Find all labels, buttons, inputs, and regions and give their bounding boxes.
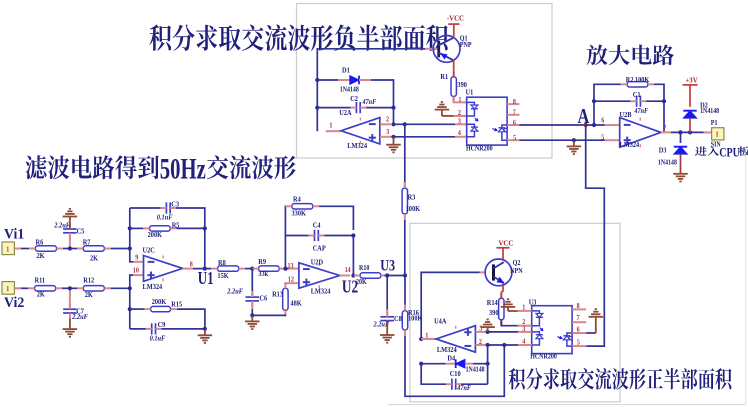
wire C4 right (324, 236, 353, 276)
wire pin2 row to U1 pin3 (392, 123, 456, 125)
junction row1-C5 (68, 246, 72, 250)
wire R5 row left (130, 227, 144, 229)
svg-text:1: 1 (329, 122, 332, 129)
pin number U1 pin 2 (458, 110, 461, 117)
junction D2 tap (688, 130, 692, 134)
svg-text:10: 10 (133, 267, 140, 274)
capacitor C7 2.2uF (63, 303, 88, 321)
wire C2 row left (317, 107, 350, 109)
wire +3V to D2 (689, 85, 691, 107)
svg-text:U3: U3 (380, 258, 395, 275)
pin stub U2B output pin 7 (661, 131, 671, 133)
junction C4-R4 right (351, 233, 355, 237)
junction ground tap pin3 row (391, 135, 395, 139)
wire fb right vertical (487, 345, 489, 384)
svg-text:U2D: U2D (311, 259, 323, 266)
pin number U2B pin 7 (663, 125, 667, 132)
wire C1 row right (646, 100, 664, 102)
wire R13 bottom to ground node (252, 314, 285, 317)
net label Vi2 (4, 295, 24, 311)
pin number U2D pin 13 (288, 263, 295, 270)
power VCC (497, 239, 514, 247)
junction C9-ground (203, 327, 207, 331)
op-amp U2D (LM324) (299, 259, 340, 296)
net label U3 (380, 258, 395, 275)
wire C5 to row1 junction (69, 235, 71, 248)
wire node to U2C pin9 (130, 208, 136, 262)
svg-text:47nF: 47nF (633, 108, 648, 115)
resistor R2 100K (621, 77, 654, 87)
title: filter circuit gives 50Hz AC waveform (25, 152, 295, 186)
junction C6 tap (250, 267, 254, 271)
svg-text:LM324: LM324 (347, 143, 367, 150)
wire R6 to R7 with C5 tap (63, 248, 77, 250)
svg-text:100K: 100K (406, 206, 421, 213)
wire D4 row left (421, 363, 445, 365)
wire C6 bottom to ground node (251, 309, 253, 315)
title: amplifier circuit (587, 45, 674, 66)
pin stub U1 pin 5 (507, 139, 519, 141)
wire pin3 row to U3 pin3 (488, 331, 518, 333)
pin stub U3 pin 4 (518, 344, 532, 346)
pin stub D4 left (446, 363, 456, 365)
pin stub U1 pin 7 (507, 114, 519, 116)
junction D4-C10 right (486, 343, 490, 347)
pin stub U2D pin13 (289, 268, 299, 270)
capacitor C4 CAP (309, 222, 326, 253)
connector port Vi2 (pin 1) (2, 282, 14, 295)
svg-text:C8: C8 (394, 316, 402, 323)
junction row2-C7 (68, 286, 72, 290)
wire R1 to U1 pin 1 (454, 97, 467, 103)
resistor R9 33k (252, 259, 285, 278)
junction fb left on pin6 row (592, 123, 596, 127)
svg-text:R12: R12 (83, 277, 94, 284)
svg-text:R15: R15 (171, 301, 182, 308)
svg-text:12: 12 (288, 276, 294, 283)
wire D1 left (317, 79, 338, 81)
pin number U2D pin 12 (288, 276, 294, 283)
op-amp U2A (LM324) (339, 110, 380, 150)
junction D3 tap (678, 130, 682, 134)
pin number U2A pin 2 (386, 116, 389, 123)
pin stub Q1 base (425, 48, 437, 50)
junction C2 row left (315, 106, 319, 110)
resistor R7 2K (77, 239, 111, 263)
pin R3 top (404, 182, 406, 188)
svg-text:47nF: 47nF (456, 385, 471, 392)
ground below R15/C9 (198, 329, 213, 343)
pin stub U2D output pin 14 (340, 275, 350, 277)
pin stub U3 pin 8 (572, 308, 586, 310)
svg-text:U2B: U2B (620, 112, 632, 119)
transistor Q2 NPN (485, 259, 523, 286)
resistor R12 2K (77, 277, 111, 299)
op-amp U4A (LM324) (434, 318, 475, 354)
junction C6-R13 ground node (250, 313, 254, 317)
wire Vi1 to R6 (14, 248, 29, 250)
junction D4 right (486, 362, 490, 366)
wire C3 row (130, 207, 161, 209)
svg-text:50Hz: 50Hz (160, 152, 206, 186)
wire R2 right (654, 84, 664, 132)
wire R13 top to U2D pin12 (284, 282, 286, 285)
diode D2 1N4148 (683, 102, 719, 118)
pin number U4A pin 2 (479, 339, 482, 346)
junction U3 node (403, 273, 407, 277)
pin number U2A pin 3 (386, 129, 390, 136)
svg-text:2.2uF: 2.2uF (71, 314, 88, 321)
svg-text:NPN: NPN (510, 268, 523, 275)
wire node to U2C pin10 (130, 275, 136, 329)
resistor R1 390 (440, 71, 467, 103)
capacitor C2 47nF (350, 96, 377, 113)
svg-text:U1: U1 (466, 89, 474, 96)
wire node A down to U3 pin5 (586, 125, 605, 346)
svg-text:390: 390 (457, 82, 467, 89)
svg-text:R6: R6 (36, 239, 44, 246)
wire C6 top (251, 269, 253, 292)
resistor R13 48K (272, 282, 302, 316)
svg-text:C5: C5 (77, 228, 85, 235)
svg-text:R2 100K: R2 100K (626, 77, 650, 84)
ground below C7 (63, 319, 78, 337)
diode D1 1N4148 (340, 67, 359, 93)
junction U2D output node (351, 273, 355, 277)
svg-text:2K: 2K (37, 253, 46, 260)
junction R5 row left (128, 226, 132, 230)
sheet border right (745, 155, 747, 405)
wire fb right vertical to pin2 (393, 103, 395, 124)
capacitor C3 0.1uF (157, 201, 180, 221)
pin C8 top (386, 310, 388, 316)
svg-text:1N4148: 1N4148 (340, 86, 359, 93)
svg-text:2.2uF: 2.2uF (53, 222, 70, 229)
svg-text:1N4148: 1N4148 (700, 108, 719, 115)
ground above C5 (inverted) (63, 209, 78, 229)
pin stub U1 pin 3 (455, 123, 467, 125)
svg-text:15K: 15K (217, 272, 229, 279)
resistor R3 100K (402, 182, 421, 220)
svg-text:33k: 33k (258, 271, 268, 278)
svg-text:Vi2: Vi2 (4, 295, 24, 311)
svg-text:A: A (578, 105, 590, 128)
wire Vi2 to R11 (14, 287, 28, 289)
pin number U2B pin 6 (601, 117, 605, 124)
wire U2B output to P1 (671, 131, 712, 133)
wire C4 row left (285, 235, 308, 237)
wire R8 to R9 (245, 268, 252, 270)
svg-text:R14: R14 (487, 300, 498, 307)
ground below U2B pin5 row (567, 141, 582, 154)
svg-text:C4: C4 (313, 222, 321, 229)
resistor R4 330K (286, 196, 320, 218)
wire R5 row right (177, 227, 205, 229)
wire VCC to Q2 collector (502, 248, 504, 260)
svg-text:1: 1 (458, 96, 461, 103)
svg-text:Q2: Q2 (513, 260, 521, 267)
wire U1 pin6 to node A (520, 124, 605, 126)
svg-text:R7: R7 (83, 239, 91, 246)
svg-text:200K: 200K (148, 232, 163, 239)
pin stub U2A output pin 1 (326, 130, 341, 132)
pin number U3 pin 1 (522, 304, 525, 311)
capacitor C10 47nF (446, 371, 472, 392)
wire Q1 collector to -VCC (453, 36, 455, 39)
pin stub U3 pin 1 (518, 310, 532, 312)
wire R12 to U2C pin10 node (111, 287, 130, 289)
connector port Vi1 (pin 1) (2, 242, 14, 255)
junction R3 tap (403, 122, 407, 126)
connector pin stub Vi1 (14, 248, 21, 250)
op-amp U2C (LM324) (143, 247, 183, 291)
wire R10 to C8 junction (385, 275, 406, 277)
wire R11 to R12 with C7 tap (62, 287, 77, 289)
pin number U1 pin 5 (513, 135, 517, 142)
wire R15 row left (130, 308, 145, 310)
pin stub U1 pin 2 (454, 115, 467, 117)
pin stub U2C pin10 (133, 274, 144, 276)
pin stub U2A pin 2 (380, 123, 392, 125)
svg-text:U4A: U4A (434, 318, 446, 325)
svg-text:U3: U3 (529, 299, 537, 306)
junction U2A pin2 node (391, 122, 395, 126)
svg-text:R13: R13 (272, 291, 283, 298)
pin stub U4A pin 3 (475, 331, 487, 333)
wire D2 to output (689, 118, 691, 132)
pin stub U2C pin9 (133, 261, 144, 263)
junction C8 tap (385, 273, 389, 277)
svg-text:LM324: LM324 (620, 141, 640, 148)
svg-text:LM324: LM324 (437, 347, 457, 354)
wire R3 bottom to U3 node (404, 220, 406, 276)
wire output to D3 (680, 132, 682, 143)
pin stub U1 pin 8 (507, 103, 519, 105)
wire R4 right (319, 206, 353, 230)
pin number U2C pin 8 (190, 261, 194, 268)
svg-text:C9: C9 (158, 322, 166, 329)
wire R3 top (404, 124, 406, 182)
svg-text:P1: P1 (711, 119, 718, 126)
pin number U2B pin 5 (601, 134, 605, 141)
ground at U3 pin 1 (inverted) (501, 299, 516, 311)
svg-text:HCNR200: HCNR200 (530, 353, 557, 360)
wire C3 row right (176, 208, 205, 269)
svg-text:U1: U1 (198, 269, 214, 288)
op-amp U2B (LM324) (620, 112, 661, 149)
ground below C6 (245, 315, 259, 329)
svg-text:SIN: SIN (711, 141, 721, 148)
pin number U3 pin 6 (577, 326, 581, 333)
svg-text:1: 1 (6, 286, 9, 293)
net label Vi1 (4, 226, 24, 242)
svg-text:2K: 2K (37, 291, 46, 298)
pin stub U4A output pin 1 (421, 338, 436, 340)
pin stub U2D pin12 (285, 282, 299, 284)
wire fb left vertical (594, 84, 621, 125)
svg-text:390: 390 (489, 309, 499, 316)
label: enter CPU board (695, 146, 748, 159)
junction C2-D1 right (391, 106, 395, 110)
junction U2D pin13 node (283, 267, 287, 271)
svg-text:D1: D1 (342, 67, 350, 74)
title: integral of negative half of AC waveform (149, 25, 447, 51)
pin number U2A pin 1 (329, 122, 332, 129)
wire R15 row right (177, 309, 205, 329)
power -VCC (447, 14, 464, 35)
svg-text:1N4148: 1N4148 (466, 366, 485, 373)
svg-text:D4: D4 (447, 355, 455, 362)
transistor Q1 PNP (433, 35, 471, 62)
net label A (578, 105, 590, 128)
wire C10 row right (461, 383, 487, 385)
pin stub U1 pin 6 (507, 124, 519, 126)
junction ground tap U4A pin3 (486, 330, 490, 334)
wire Q2 emitter to R14 (501, 283, 503, 292)
svg-text:VCC: VCC (499, 239, 514, 247)
svg-text:R3: R3 (408, 194, 416, 201)
optocoupler U1 HCNR200 (466, 89, 508, 152)
wire C10 row left (421, 364, 446, 385)
wire R4 row left (284, 205, 286, 207)
junction R15 row left (128, 307, 132, 311)
svg-text:1: 1 (6, 246, 9, 253)
svg-text:R9: R9 (258, 259, 266, 266)
wire R14 to U3 pin 2 (501, 320, 517, 326)
junction U4A output node (419, 337, 423, 341)
pin C6 bottom (251, 301, 253, 309)
svg-text:R11: R11 (35, 277, 46, 284)
resistor R10 20K (354, 264, 387, 285)
svg-text:100K: 100K (408, 315, 423, 322)
wire C2 row right (366, 107, 393, 109)
capacitor C1 47nF (631, 92, 649, 116)
capacitor C8 2.2uF (373, 311, 403, 329)
pin number U3 pin 3 (522, 326, 526, 333)
junction C1 row right (662, 99, 666, 103)
wire Q1 emitter to R1 (453, 60, 455, 71)
ground below U2A pin3 row (386, 137, 401, 152)
wire ground to U1 pin2 (442, 115, 454, 117)
pin stub U2A pin 3 (380, 136, 392, 138)
svg-text:47nF: 47nF (362, 99, 377, 106)
wire U2A output to Q1 base (317, 49, 425, 131)
pin number U1 pin 1 (458, 96, 461, 103)
wire R9 to U2D pin13 node (286, 268, 293, 270)
pin number U1 pin 3 (458, 118, 462, 125)
pin stub U2C output pin 8 (183, 268, 193, 270)
pin number U2C pin 9 (135, 254, 139, 261)
junction C1 row left (592, 99, 596, 103)
svg-text:20K: 20K (356, 278, 367, 285)
svg-text:C3: C3 (171, 201, 179, 208)
svg-text:1: 1 (522, 304, 525, 311)
pin stub Q2 base (480, 271, 486, 273)
junction ground tap pin5 row (572, 138, 576, 142)
svg-text:200K: 200K (152, 299, 167, 306)
svg-text:C1: C1 (633, 92, 641, 99)
wire U2C out to R8 (193, 268, 211, 270)
pin stub D1 right (359, 79, 371, 81)
pin number U3 pin 7 (577, 315, 581, 322)
diode D4 1N4148 (447, 355, 484, 374)
wire U1 pin5 to U2B pin5 (520, 139, 605, 141)
svg-text:R8: R8 (218, 260, 226, 267)
connector P1 SIN (pin 1) (711, 119, 724, 148)
svg-text:LM324: LM324 (143, 284, 163, 291)
pin stub U1 pin 4 (455, 136, 467, 138)
ground at U3 pin 6 (inverted) (589, 309, 604, 333)
svg-text:C6: C6 (259, 295, 267, 302)
wire D1 right (371, 80, 394, 103)
pin stub U2B pin 6 (605, 124, 620, 126)
ground below C8 (380, 321, 395, 343)
wire U2D fb left vertical (284, 206, 286, 268)
pin stub U3 pin 6 (572, 332, 586, 334)
pin number U1 pin 6 (513, 120, 517, 127)
svg-text:0.1uF: 0.1uF (150, 335, 166, 342)
capacitor C6 2.2uF (226, 288, 267, 307)
svg-text:2K: 2K (85, 292, 94, 299)
svg-text:C10: C10 (450, 371, 461, 378)
section box: negative half-wave integrator (297, 4, 553, 159)
junction U2C output node (203, 267, 207, 271)
wire C9 row left (130, 328, 146, 330)
pin number U3 pin 8 (577, 303, 581, 310)
svg-text:0.1uF: 0.1uF (157, 214, 173, 221)
pin stub U3 pin 2 (518, 325, 532, 327)
pin stub D4 right (465, 363, 473, 365)
pin stub D1 left (338, 79, 350, 81)
svg-text:LM324: LM324 (311, 288, 331, 295)
svg-text:+3V: +3V (685, 77, 697, 85)
pin number U2C pin 10 (133, 267, 140, 274)
svg-text:2.2uF: 2.2uF (226, 288, 243, 295)
svg-text:CAP: CAP (313, 245, 326, 252)
net label U1 (198, 269, 214, 288)
svg-text:-VCC: -VCC (447, 14, 464, 22)
pin number U4A pin 1 (425, 332, 428, 339)
resistor R15 200K (144, 299, 182, 312)
resistor R11 2K (28, 277, 62, 298)
svg-text:D3: D3 (659, 147, 667, 154)
svg-text:R4: R4 (293, 196, 301, 203)
wire C8 top (386, 276, 388, 310)
svg-text:48K: 48K (290, 300, 302, 307)
diode D3 1N4148 (658, 147, 687, 167)
wire U3 node to R16 (404, 276, 406, 305)
wire pin3 row to U1 pin4 (392, 136, 456, 138)
junction D1 row left (315, 78, 319, 82)
pin C6 top (251, 291, 253, 297)
svg-text:330K: 330K (292, 210, 307, 217)
svg-text:2K: 2K (90, 255, 99, 262)
pin number U1 pin 8 (513, 99, 517, 106)
connector pin stub Vi2 (14, 287, 21, 289)
svg-text:U2C: U2C (143, 247, 155, 254)
svg-text:Vi1: Vi1 (4, 226, 24, 242)
svg-text:1N4148: 1N4148 (658, 159, 677, 166)
wire R7 to U2C pin9 node (111, 248, 130, 250)
junction Vi2 node (128, 286, 132, 290)
svg-text:2: 2 (458, 110, 461, 117)
svg-text:13: 13 (288, 263, 295, 270)
junction Vi1 node (128, 246, 132, 250)
resistor R6 2K (29, 239, 63, 260)
wire ground to U3 pin1 (508, 310, 518, 312)
svg-text:2: 2 (386, 116, 389, 123)
pin number U3 pin 2 (522, 319, 525, 326)
